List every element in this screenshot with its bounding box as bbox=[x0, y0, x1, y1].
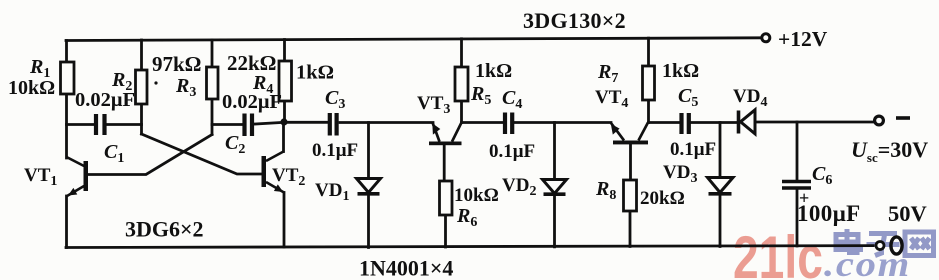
svg-text:21lc: 21lc bbox=[733, 225, 823, 280]
svg-text:0.1μF: 0.1μF bbox=[670, 139, 716, 160]
svg-text:C6: C6 bbox=[812, 163, 832, 188]
svg-text:VT4: VT4 bbox=[595, 87, 628, 111]
wire VT2 collector vertical bbox=[282, 122, 285, 152]
wire VT3 collector node to C4 bbox=[462, 121, 503, 124]
svg-text:VT2: VT2 bbox=[272, 165, 305, 189]
resistor R5 bbox=[455, 67, 468, 101]
wire top +12V rail bbox=[66, 38, 762, 41]
svg-text:100μF: 100μF bbox=[797, 201, 861, 226]
svg-text:VD3: VD3 bbox=[663, 162, 697, 186]
wire VT4 base to R8 bbox=[629, 144, 632, 246]
wire R5 vertical bbox=[460, 39, 463, 123]
minus sign of output bbox=[896, 116, 910, 120]
transistor VT3 bbox=[429, 123, 462, 146]
wire VT3 base to R6 bbox=[444, 145, 445, 247]
svg-text:R5: R5 bbox=[470, 83, 491, 108]
svg-text:R7: R7 bbox=[597, 61, 618, 86]
wire C2 horizontal bbox=[212, 122, 284, 124]
diode VD1 bbox=[357, 179, 381, 194]
svg-text:0.1μF: 0.1μF bbox=[312, 140, 358, 161]
scan speck bbox=[154, 81, 157, 84]
svg-text:22kΩ: 22kΩ bbox=[227, 51, 277, 75]
svg-text:VD4: VD4 bbox=[733, 86, 767, 110]
wire R2 vertical bbox=[140, 40, 143, 134]
resistor R2 bbox=[136, 70, 148, 104]
wire cross-couple diagonal R3 to VT1 base bbox=[88, 135, 212, 175]
wire C3 to VT3 emitter bbox=[340, 121, 433, 124]
svg-text:+12V: +12V bbox=[778, 27, 828, 51]
resistor R7 bbox=[643, 66, 655, 100]
wire R3 vertical bbox=[211, 40, 214, 135]
svg-text:R3: R3 bbox=[175, 75, 196, 100]
node junction dot at VT2 collector bbox=[280, 118, 287, 125]
svg-text:VD2: VD2 bbox=[502, 175, 536, 199]
svg-text:0.1μF: 0.1μF bbox=[489, 141, 535, 162]
capacitor C1 bbox=[96, 114, 105, 135]
svg-text:50V: 50V bbox=[888, 201, 927, 226]
capacitor C5 bbox=[682, 113, 689, 134]
terminal ground output bbox=[876, 242, 884, 250]
wire VD2 vertical bbox=[553, 123, 556, 247]
svg-text:VD1: VD1 bbox=[315, 180, 349, 204]
wire R7 vertical bbox=[647, 38, 650, 122]
wire VT2 emitter to ground bbox=[283, 193, 286, 248]
svg-text:R6: R6 bbox=[456, 205, 477, 230]
svg-text:10kΩ: 10kΩ bbox=[8, 77, 55, 99]
svg-text:C3: C3 bbox=[325, 87, 345, 112]
transistor VT2 bbox=[262, 152, 285, 193]
svg-text:1N4001×4: 1N4001×4 bbox=[359, 256, 453, 280]
wire node to C3 bbox=[284, 121, 328, 124]
capacitor C4 bbox=[505, 113, 512, 135]
wire C6 vertical bbox=[796, 122, 799, 246]
capacitor C6 electrolytic bbox=[782, 182, 811, 189]
capacitor C3 bbox=[330, 113, 337, 136]
wire VT4 collector node to C5 bbox=[649, 121, 680, 124]
svg-text:C1: C1 bbox=[104, 141, 124, 166]
wire left rail lower (VT1 emitter to ground) bbox=[65, 196, 68, 248]
diode VD2 bbox=[543, 180, 567, 195]
transistor VT1 bbox=[67, 157, 89, 196]
resistor R3 bbox=[207, 67, 219, 99]
svg-text:C4: C4 bbox=[502, 87, 522, 112]
svg-text:97kΩ: 97kΩ bbox=[152, 52, 202, 76]
diode VD4 bbox=[739, 110, 756, 134]
capacitor C2 bbox=[245, 114, 253, 137]
svg-text:Usc=30V: Usc=30V bbox=[851, 137, 928, 165]
resistor R8 bbox=[624, 180, 637, 211]
wire C1 horizontal bbox=[67, 123, 142, 126]
svg-text:0.02μF: 0.02μF bbox=[75, 89, 135, 111]
resistor R1 bbox=[61, 62, 75, 94]
bold zero mark at lower right terminal bbox=[891, 237, 902, 254]
wire cross-couple diagonal R2 to VT2 base bbox=[142, 134, 262, 174]
terminal output minus bbox=[875, 116, 884, 125]
svg-text:20kΩ: 20kΩ bbox=[640, 188, 685, 209]
wire C4 to VT4 emitter bbox=[514, 121, 611, 124]
transistor VT4 bbox=[611, 123, 648, 145]
wire R4 vertical bbox=[283, 40, 286, 123]
wire VD4 to output terminal bbox=[755, 121, 874, 124]
resistor R4 bbox=[279, 61, 292, 101]
wire VD1 vertical bbox=[367, 123, 370, 248]
svg-text:3DG130×2: 3DG130×2 bbox=[523, 8, 626, 33]
svg-text:10kΩ: 10kΩ bbox=[454, 185, 499, 206]
svg-text:1kΩ: 1kΩ bbox=[662, 60, 699, 82]
wire VD3 vertical bbox=[719, 123, 722, 247]
svg-text:VT3: VT3 bbox=[417, 93, 450, 117]
resistor R6 bbox=[440, 181, 453, 215]
watermark dianzi wang blue CJK drawn strokes bbox=[836, 229, 934, 256]
terminal +12V bbox=[762, 34, 770, 42]
diode VD3 bbox=[708, 178, 734, 194]
svg-text:1kΩ: 1kΩ bbox=[475, 60, 512, 82]
wire bottom ground rail bbox=[66, 246, 873, 248]
svg-text:3DG6×2: 3DG6×2 bbox=[125, 217, 204, 242]
svg-text:C2: C2 bbox=[225, 132, 245, 157]
svg-text:VT1: VT1 bbox=[24, 165, 57, 189]
wire left rail upper (R1/VT1 collector) bbox=[65, 41, 68, 159]
svg-text:R8: R8 bbox=[595, 178, 616, 203]
svg-text:C5: C5 bbox=[678, 85, 698, 110]
svg-text:0.02μF: 0.02μF bbox=[222, 91, 282, 113]
wire C5 to VD4 bbox=[691, 121, 736, 124]
svg-text:1kΩ: 1kΩ bbox=[296, 62, 334, 84]
